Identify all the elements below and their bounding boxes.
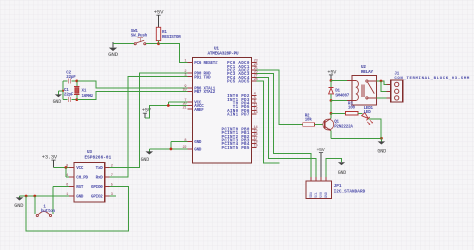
ground GND (crystal) xyxy=(53,90,64,106)
wire PC2 to R2 xyxy=(257,70,303,125)
wire PC5 net xyxy=(257,81,280,163)
wire SW1 to R1 node xyxy=(146,43,159,45)
svg-text:CH_PD: CH_PD xyxy=(76,177,88,181)
svg-text:4: 4 xyxy=(66,174,68,178)
wire vcc to coil top xyxy=(331,80,352,82)
U1 pin 24 PC1 ADC1 xyxy=(227,63,257,70)
svg-text:GND: GND xyxy=(53,99,62,105)
svg-text:SM4007: SM4007 xyxy=(335,94,350,98)
led LED1 xyxy=(362,107,374,125)
U1 pin 15 PCINT1 PB1 xyxy=(222,130,258,137)
wire emitter to gnd rail xyxy=(331,131,381,139)
svg-text:AIN1 PD7: AIN1 PD7 xyxy=(227,114,250,118)
svg-text:J1: J1 xyxy=(394,72,399,76)
U1 pin 14 PCINT0 PB0 xyxy=(222,126,258,133)
svg-text:U3: U3 xyxy=(87,150,92,155)
U1 pin 1 PC6 RESET# xyxy=(184,60,218,66)
svg-text:GND: GND xyxy=(194,149,202,153)
svg-text:1: 1 xyxy=(184,60,186,64)
U1 pin 26 PC3 ADC3 xyxy=(227,71,257,78)
wire GPIO2 stub xyxy=(110,195,116,197)
svg-text:19: 19 xyxy=(254,144,258,148)
U1 pin 10 PB7 XTAL2 xyxy=(182,89,215,95)
node reset junction xyxy=(157,42,160,45)
svg-text:CON_TERMINAL_BLOCK_03-5MM: CON_TERMINAL_BLOCK_03-5MM xyxy=(394,77,470,81)
wire collector xyxy=(330,113,332,118)
svg-text:8: 8 xyxy=(184,139,186,143)
node crystal bottom xyxy=(75,98,78,101)
capacitor C2 xyxy=(63,71,77,83)
U3 pin 3 GPIO2 xyxy=(91,193,113,199)
svg-text:R1: R1 xyxy=(162,31,167,35)
svg-text:5V0: 5V0 xyxy=(320,192,324,198)
wire coil to collector xyxy=(330,101,332,114)
svg-text:C1: C1 xyxy=(64,89,69,93)
svg-text:VCC: VCC xyxy=(76,167,84,171)
svg-text:D1: D1 xyxy=(335,90,340,94)
supply +5V (reset pull-up) xyxy=(154,9,164,28)
wire U1 GND pins xyxy=(149,142,187,149)
supply +3.3V xyxy=(42,154,58,167)
svg-text:10k: 10k xyxy=(305,118,313,123)
svg-text:SW_Push: SW_Push xyxy=(131,34,148,39)
svg-text:U1: U1 xyxy=(214,46,219,51)
node CH_PD junction xyxy=(65,166,68,169)
node collector junction xyxy=(330,112,333,115)
svg-text:button: button xyxy=(41,209,56,214)
U1 pin 2 PD0 RXD xyxy=(184,70,211,76)
IC U1 ATMEGA328P-PU body xyxy=(193,46,252,163)
svg-text:SCL: SCL xyxy=(315,192,319,198)
svg-text:3: 3 xyxy=(111,193,113,197)
wire RST to button xyxy=(53,187,69,214)
wire +5V to VCC/AVCC xyxy=(145,102,188,118)
svg-text:RxD: RxD xyxy=(96,177,104,181)
wire coil bottom xyxy=(331,100,352,102)
JP1 pin 2 SCL xyxy=(315,177,319,198)
svg-text:3: 3 xyxy=(184,74,186,78)
svg-text:7: 7 xyxy=(111,174,113,178)
U1 pin 27 PC4 ADC4 xyxy=(227,74,257,81)
svg-text:ESP8266-01: ESP8266-01 xyxy=(85,156,112,161)
svg-text:+5V: +5V xyxy=(142,108,152,114)
wire GPIO0 loop xyxy=(26,187,128,232)
svg-text:22: 22 xyxy=(182,146,186,150)
relay U2 body xyxy=(352,65,376,105)
svg-text:P2N2222A: P2N2222A xyxy=(334,126,353,130)
U1 pin 3 PD1 TXD xyxy=(184,74,211,80)
svg-text:GND: GND xyxy=(377,148,386,154)
svg-text:R2: R2 xyxy=(305,114,310,118)
U3 pin 1 GND xyxy=(66,193,84,199)
svg-text:100: 100 xyxy=(348,107,356,111)
U1 pin 5 INT1 PD3 xyxy=(227,96,256,103)
svg-text:PD1 TXD: PD1 TXD xyxy=(194,76,211,80)
wire JP1 gnd xyxy=(326,159,342,177)
U3 pin 4 CH_PD xyxy=(66,174,88,180)
svg-text:PC5 ADC5: PC5 ADC5 xyxy=(227,81,250,85)
node crystal top xyxy=(75,80,78,83)
pushbutton S1 xyxy=(36,206,55,217)
svg-text:13: 13 xyxy=(254,111,258,115)
U1 pin 4 INT0 PD2 xyxy=(227,93,256,100)
svg-text:16MHz: 16MHz xyxy=(82,95,94,99)
wire relay NO to J1 mid xyxy=(381,81,387,91)
node coil bottom xyxy=(330,99,333,102)
svg-text:TxD: TxD xyxy=(96,167,104,171)
ground GND (U1) xyxy=(141,149,154,163)
U1 pin 23 PC0 ADC0 xyxy=(227,60,257,67)
svg-text:RESISTOR: RESISTOR xyxy=(162,36,181,40)
crystal X1 xyxy=(74,81,94,100)
svg-text:GND: GND xyxy=(141,157,150,163)
wire relay common to J1 xyxy=(376,81,386,84)
svg-text:AREF: AREF xyxy=(194,109,204,113)
terminal block J1 xyxy=(387,72,470,102)
U1 pin 25 PC2 ADC2 xyxy=(227,67,257,74)
wire ESP GND net xyxy=(20,195,70,197)
node GND junction xyxy=(170,148,173,151)
U3 pin 2 TxD xyxy=(96,165,113,171)
U1 pin 18 PCINT4 PB4 xyxy=(222,141,258,148)
U3 pin 7 RxD xyxy=(96,174,113,180)
U3 pin 5 GPIO0 xyxy=(91,184,113,190)
svg-text:GND: GND xyxy=(194,141,202,145)
U1 pin 12 AIN0 PD6 xyxy=(227,107,257,114)
svg-text:1: 1 xyxy=(66,193,68,197)
wire XTAL2 net xyxy=(77,92,188,100)
svg-text:GND: GND xyxy=(338,170,347,176)
node relay out xyxy=(380,80,383,83)
svg-text:+5V: +5V xyxy=(154,9,164,16)
svg-text:22pF: 22pF xyxy=(66,76,76,80)
svg-text:5: 5 xyxy=(111,184,113,188)
wire PD0-RXD to ESP TxD xyxy=(110,73,188,168)
svg-text:PC6 RESET#: PC6 RESET# xyxy=(194,62,218,66)
ground GND (ESP) xyxy=(14,196,23,209)
svg-text:GND: GND xyxy=(108,51,119,58)
U1 pin 11 T1 PD5 xyxy=(233,104,258,111)
svg-text:JP1: JP1 xyxy=(334,184,342,189)
svg-text:GND: GND xyxy=(325,192,329,198)
wire LED to gnd rail xyxy=(368,119,381,138)
diode D1 xyxy=(329,81,350,101)
svg-text:6: 6 xyxy=(66,184,68,188)
svg-text:PCINT5 PB5: PCINT5 PB5 xyxy=(222,147,250,151)
U1 pin 16 PCINT2 PB2 xyxy=(222,133,258,140)
svg-text:SW1: SW1 xyxy=(131,30,139,34)
wire PC3 to JP1 pin1 xyxy=(257,74,312,177)
wire +3.3V to VCC xyxy=(54,167,70,169)
ground GND (switch) xyxy=(108,42,119,58)
node emitter gnd junction xyxy=(380,137,383,140)
ground GND (JP1) xyxy=(338,162,347,176)
U1 pin 6 T0 PD4 xyxy=(233,100,257,107)
svg-text:GPIO2: GPIO2 xyxy=(91,196,103,200)
svg-text:22pF: 22pF xyxy=(64,94,74,98)
U1 pin 21 AREF xyxy=(182,106,204,112)
svg-text:GPIO0: GPIO0 xyxy=(91,186,103,190)
svg-text:RELAY: RELAY xyxy=(361,70,374,75)
U1 pin 19 PCINT5 PB5 xyxy=(222,144,258,151)
U1 pin 9 PB6 XTAL1 xyxy=(184,85,215,91)
wire gnd to button xyxy=(34,196,36,214)
svg-text:+3.3V: +3.3V xyxy=(42,154,58,160)
capacitor C1 xyxy=(63,89,77,102)
svg-text:X1: X1 xyxy=(82,89,87,93)
transistor Q1 P2N2222A xyxy=(323,118,353,130)
U1 pin 13 AIN1 PD7 xyxy=(227,111,257,118)
svg-text:RST: RST xyxy=(76,186,84,190)
svg-text:ATMEGA328P-PU: ATMEGA328P-PU xyxy=(208,52,240,57)
node VCC junction xyxy=(167,104,170,107)
ground GND (relay driver) xyxy=(377,138,386,154)
wire gnd rail (crystal) xyxy=(62,81,64,100)
svg-text:10: 10 xyxy=(182,89,186,93)
U3 pin 6 RST xyxy=(66,184,84,190)
svg-text:LED: LED xyxy=(364,111,372,115)
resistor R3 xyxy=(331,102,362,115)
wire reset node to U1 pin1 xyxy=(159,44,188,63)
U1 pin 7 VCC xyxy=(184,99,201,105)
U1 pin 20 AVCC xyxy=(182,103,204,109)
wire relay NC to J1 bottom xyxy=(376,97,386,99)
U1 pin 28 PC5 ADC5 xyxy=(227,78,257,85)
connector JP1 body xyxy=(306,181,366,199)
svg-text:GND: GND xyxy=(14,203,23,209)
svg-text:C2: C2 xyxy=(66,71,71,75)
svg-text:I2C_STANDARD: I2C_STANDARD xyxy=(334,190,366,195)
node relay vcc xyxy=(330,79,333,82)
supply +5V (JP1) xyxy=(316,147,324,177)
wire XTAL1 net xyxy=(77,81,188,88)
wire PD1-TXD to ESP RxD xyxy=(110,77,188,177)
JP1 pin 1 SDA xyxy=(310,177,314,198)
svg-text:21: 21 xyxy=(182,106,186,110)
node gnd junction A xyxy=(25,195,28,198)
U1 pin 22 GND xyxy=(182,146,201,152)
supply +5V (U1 VCC) xyxy=(142,108,152,119)
wire CH_PD tie xyxy=(66,168,69,178)
svg-text:Q1: Q1 xyxy=(334,121,339,125)
resistor R2 xyxy=(303,114,323,126)
svg-text:GND: GND xyxy=(76,196,84,200)
supply +5V (relay) xyxy=(327,69,337,80)
U1 pin 17 PCINT3 PB3 xyxy=(222,137,258,144)
U1 pin 8 GND xyxy=(184,139,201,145)
svg-text:2: 2 xyxy=(111,165,113,169)
wire gnd to SW1 xyxy=(113,43,134,45)
JP1 pin 3 5V0 xyxy=(320,177,324,198)
node gnd junction B xyxy=(33,195,36,198)
module U3 ESP8266-01 body xyxy=(74,150,111,202)
JP1 pin 4 GND xyxy=(325,177,329,198)
resistor R1 xyxy=(156,27,181,43)
wire PC4 to JP1 pin2 xyxy=(257,77,317,177)
switch SW1 xyxy=(131,30,148,45)
U3 pin 8 VCC xyxy=(66,165,84,171)
svg-text:PB7 XTAL2: PB7 XTAL2 xyxy=(194,91,216,95)
